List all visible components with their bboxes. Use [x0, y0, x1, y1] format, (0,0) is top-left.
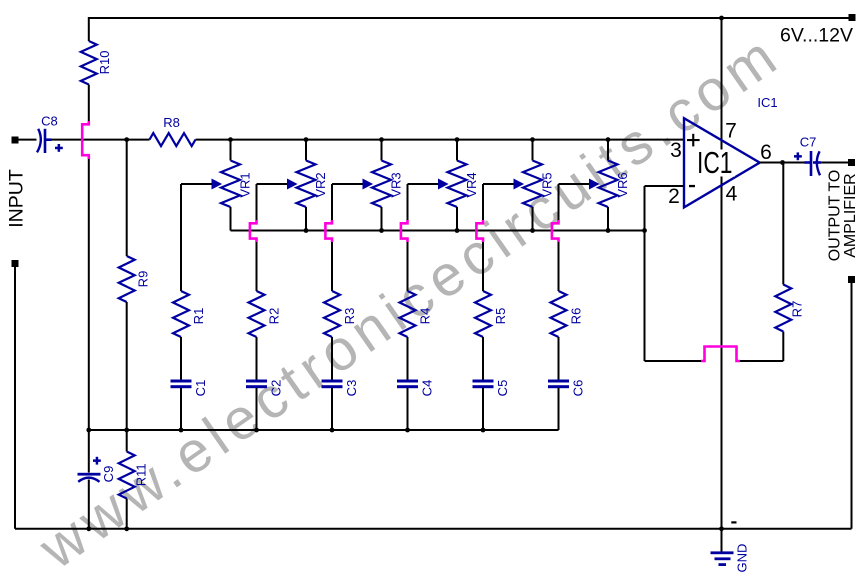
node C2 bias bus junction [254, 428, 259, 433]
wire wiper5 lower segment [482, 241, 484, 291]
wire VR1 wiper arrow [181, 179, 221, 188]
node VR6 bottom junction [606, 228, 611, 233]
wire C3 to bias bus [331, 388, 333, 430]
svg-text:VR2: VR2 [313, 172, 328, 197]
terminal supply positive [849, 14, 856, 21]
terminal output ground [848, 276, 855, 283]
wire hop over lower bus (pink link) band 6 [552, 220, 559, 242]
node C4 bias bus junction [405, 428, 410, 433]
svg-text:R5: R5 [493, 308, 508, 325]
svg-text:R4: R4 [418, 308, 433, 325]
wire C1 to bias bus [180, 388, 182, 430]
svg-text:C8: C8 [41, 113, 58, 128]
node ground rail junction [719, 526, 724, 531]
svg-text:VR5: VR5 [540, 172, 555, 197]
wire R3 to C3 [331, 337, 333, 380]
wire wiper2 upper segment [256, 184, 258, 221]
node input junction R9 [124, 137, 129, 142]
svg-text:3: 3 [670, 139, 682, 162]
capacitor C6 [548, 380, 586, 397]
potentiometer VR5 [523, 161, 555, 208]
svg-text:R8: R8 [163, 115, 180, 130]
node bias bus R9 [124, 428, 129, 433]
wire wiper6 upper segment [558, 184, 560, 221]
capacitor C4 [397, 380, 435, 397]
wire VR6 top stub [607, 140, 609, 161]
wire C6 to bias bus [558, 388, 560, 430]
svg-text:6V...12V: 6V...12V [780, 25, 853, 47]
svg-text:VR3: VR3 [389, 172, 404, 197]
wire wiper4 lower segment [407, 241, 409, 291]
terminal input ground [12, 260, 19, 267]
svg-text:C2: C2 [269, 380, 284, 397]
potentiometer VR4 [448, 161, 480, 208]
svg-text:C5: C5 [495, 380, 510, 397]
svg-text:R11: R11 [134, 463, 149, 486]
op-amp plus input sign [687, 139, 700, 141]
svg-text:R9: R9 [136, 271, 151, 288]
wire ground bus bottom [15, 528, 852, 530]
resistor R8 [150, 115, 196, 146]
wire hop over lower bus (pink link) band 3 [325, 220, 332, 242]
node VR2 top junction [304, 137, 309, 142]
svg-text:R2: R2 [267, 308, 282, 325]
svg-text:OUTPUT TO: OUTPUT TO [827, 170, 844, 262]
node VR5 bottom junction [530, 228, 535, 233]
node VR2 bottom junction [304, 228, 309, 233]
wire inverting input down [644, 186, 646, 361]
wire VR1 top stub [230, 140, 232, 161]
wire C4 to bias bus [407, 388, 409, 430]
wire R4 to C4 [407, 337, 409, 380]
wire VR3 bottom stub [381, 207, 383, 231]
svg-text:R3: R3 [342, 308, 357, 325]
svg-text:2: 2 [668, 185, 680, 208]
wire VR5 bottom stub [532, 207, 534, 231]
wire bias column vertical [88, 158, 90, 430]
svg-text:C9: C9 [101, 466, 116, 483]
ground symbol [711, 529, 734, 566]
wire wiper1 down to R1 [180, 184, 182, 291]
svg-text:VR4: VR4 [464, 172, 479, 197]
node supply rail junction [719, 16, 724, 21]
svg-text:C1: C1 [193, 380, 208, 397]
svg-text:C3: C3 [344, 380, 359, 397]
potentiometer VR2 [297, 161, 329, 208]
wire VR4 bottom stub [456, 207, 458, 231]
svg-text:INPUT: INPUT [6, 169, 28, 228]
node VR3 top junction [379, 137, 384, 142]
wire input ground down [14, 267, 16, 529]
wire inverting input [645, 185, 685, 187]
capacitor C9 [78, 430, 117, 529]
wire R10 bottom to hop [88, 85, 90, 123]
svg-text:C6: C6 [571, 380, 586, 397]
svg-text:IC1: IC1 [757, 95, 777, 110]
svg-text:R6: R6 [569, 308, 584, 325]
wire hop over lower bus (pink link) band 2 [250, 220, 257, 242]
wire hop over lower bus (pink link) band 5 [476, 220, 483, 242]
wire VR4 wiper arrow [408, 179, 448, 188]
node lower bus to inverting input [642, 228, 647, 233]
label supply minus [731, 521, 736, 523]
wire wiper3 lower segment [331, 241, 333, 291]
node R11 ground [124, 526, 129, 531]
capacitor C3 [322, 380, 360, 397]
svg-text:AMPLIFIER: AMPLIFIER [842, 173, 859, 257]
resistor R2 [249, 291, 282, 337]
node C5 bias bus junction [481, 428, 486, 433]
svg-text:VR1: VR1 [238, 172, 253, 197]
capacitor C2 [246, 380, 284, 397]
wire R6 to C6 [558, 337, 560, 380]
resistor R11 [119, 430, 149, 529]
wire VR1 bottom stub [230, 207, 232, 231]
wire VR4 top stub [456, 140, 458, 161]
wire feedback up to R7 [782, 332, 784, 362]
resistor R9 [119, 140, 151, 430]
potentiometer VR1 [221, 161, 253, 208]
svg-text:7: 7 [725, 120, 737, 143]
wire wiper5 upper segment [482, 184, 484, 221]
node VR5 top junction [530, 137, 535, 142]
wire wiper3 upper segment [331, 184, 333, 221]
wire lower bus (VR bottoms) [231, 230, 645, 232]
capacitor C8 [37, 113, 63, 153]
wire C5 to bias bus [482, 388, 484, 430]
wire C8 to R8 (input node) [51, 139, 150, 141]
wire top bus to op-amp +input [196, 139, 685, 141]
wire feedback bottom left [645, 360, 704, 362]
wire R5 to C5 [482, 337, 484, 380]
wire power rail vertical [721, 18, 723, 529]
wire C2 to bias bus [256, 388, 258, 430]
resistor R10 [81, 41, 112, 85]
wire R7 to output [782, 163, 784, 285]
wire VR6 wiper arrow [559, 179, 599, 188]
svg-text:6: 6 [760, 141, 772, 164]
wire hop over input wire (pink link) [82, 121, 89, 159]
wire top-left corner down to R10 [88, 17, 90, 41]
wire VR3 wiper arrow [332, 179, 372, 188]
wire VR2 top stub [305, 140, 307, 161]
node VR1 top junction [228, 137, 233, 142]
node C3 bias bus junction [330, 428, 335, 433]
wire VR3 top stub [381, 140, 383, 161]
wire bias bus [89, 429, 559, 431]
wire wiper6 lower segment [558, 241, 560, 291]
op-amp minus input sign [689, 185, 695, 187]
terminal output signal [848, 159, 855, 166]
svg-text:4: 4 [726, 183, 738, 206]
wire wiper2 lower segment [256, 241, 258, 291]
wire R1 to C1 [180, 337, 182, 380]
resistor R6 [551, 291, 584, 337]
node C1 bias bus junction [179, 428, 184, 433]
node C9 ground [86, 526, 91, 531]
resistor R4 [400, 291, 433, 337]
wire hop over lower bus (pink link) band 4 [401, 220, 408, 242]
wire VR2 wiper arrow [257, 179, 297, 188]
wire top supply rail [89, 17, 852, 19]
svg-text:GND: GND [735, 544, 750, 573]
node bias bus left [86, 428, 91, 433]
wire input to C8 [18, 139, 37, 141]
potentiometer VR3 [372, 161, 404, 208]
node VR4 top junction [455, 137, 460, 142]
node output junction [780, 160, 785, 165]
svg-text:R10: R10 [97, 51, 112, 75]
wire op-amp output [760, 162, 807, 164]
terminal input signal [12, 137, 19, 144]
svg-text:VR6: VR6 [615, 172, 630, 197]
wire wiper4 upper segment [407, 184, 409, 221]
capacitor C5 [473, 380, 511, 397]
wire feedback bottom right [739, 360, 783, 362]
wire hop over power rail (pink link) [701, 347, 740, 362]
wire VR2 bottom stub [305, 207, 307, 231]
wire VR6 bottom stub [607, 207, 609, 231]
resistor R3 [324, 291, 357, 337]
node VR4 bottom junction [455, 228, 460, 233]
resistor R1 [173, 291, 206, 337]
svg-text:IC1: IC1 [697, 146, 733, 180]
wire VR5 wiper arrow [483, 179, 523, 188]
wire output ground down [851, 283, 853, 529]
capacitor C1 [171, 380, 209, 397]
wire R2 to C2 [256, 337, 258, 380]
op-amp IC1 [684, 118, 760, 207]
resistor R5 [475, 291, 508, 337]
node VR3 bottom junction [379, 228, 384, 233]
potentiometer VR6 [599, 161, 631, 208]
resistor R7 [775, 285, 804, 332]
svg-text:R1: R1 [191, 308, 206, 325]
capacitor C7 [794, 135, 821, 177]
node VR6 top junction [606, 137, 611, 142]
svg-text:R7: R7 [790, 301, 805, 318]
svg-text:C7: C7 [800, 135, 817, 150]
wire C7 to output terminal [821, 162, 848, 164]
wire VR5 top stub [532, 140, 534, 161]
svg-text:C4: C4 [420, 380, 435, 397]
